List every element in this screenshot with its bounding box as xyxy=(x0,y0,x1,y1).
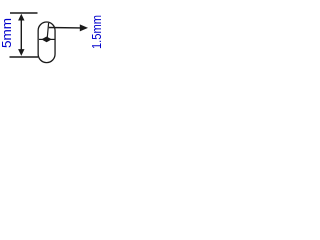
capsule outline (stadium) xyxy=(38,22,55,63)
dimension arrow (vertical double-headed) xyxy=(18,14,24,56)
leader arrowhead xyxy=(80,24,88,31)
diamond bead xyxy=(41,37,51,43)
internal wire xyxy=(47,23,48,39)
svg-text:1.5mm: 1.5mm xyxy=(89,15,104,49)
top extension line xyxy=(10,12,38,14)
leader line xyxy=(49,27,81,29)
svg-text:5mm: 5mm xyxy=(0,18,14,48)
mid horizontal line xyxy=(39,38,55,40)
bottom extension line xyxy=(10,56,39,58)
